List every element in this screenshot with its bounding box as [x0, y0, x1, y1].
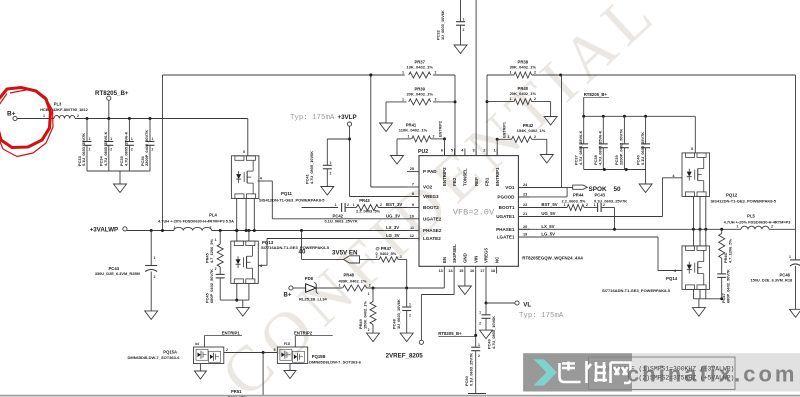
- svg-text:SIS412DN-T1-GE3_POWERPAK8-5: SIS412DN-T1-GE3_POWERPAK8-5: [259, 198, 325, 203]
- svg-text:4.7U_0805_25V6-K: 4.7U_0805_25V6-K: [598, 130, 603, 165]
- svg-text:2VREF_8205: 2VREF_8205: [386, 353, 424, 360]
- svg-text:P PAD: P PAD: [423, 169, 437, 174]
- svg-text:2: 2: [380, 203, 382, 207]
- svg-text:ENTRIP1: ENTRIP1: [495, 167, 500, 186]
- svg-text:110K_0402_1%: 110K_0402_1%: [399, 128, 428, 133]
- svg-text:9: 9: [412, 203, 414, 207]
- svg-text:UG_5V: UG_5V: [541, 211, 555, 216]
- svg-text:2: 2: [89, 148, 91, 152]
- svg-text:1U_0603_10V6K: 1U_0603_10V6K: [440, 10, 445, 40]
- svg-text:PC43: PC43: [595, 193, 606, 198]
- svg-text:PD8: PD8: [305, 276, 314, 281]
- svg-text:5: 5: [451, 149, 453, 153]
- svg-text:2: 2: [77, 114, 79, 118]
- svg-text:2200P_0402_50V7K: 2200P_0402_50V7K: [144, 130, 149, 166]
- svg-text:1: 1: [402, 71, 404, 75]
- svg-text:150U_D2E_6.3VM_R18: 150U_D2E_6.3VM_R18: [750, 277, 793, 282]
- svg-text:2: 2: [152, 148, 154, 152]
- svg-text:1: 1: [400, 255, 402, 259]
- svg-text:0.1U_0603_25V7K: 0.1U_0603_25V7K: [324, 219, 357, 224]
- svg-text:NC: NC: [494, 256, 499, 263]
- svg-text:PQ11: PQ11: [281, 191, 293, 196]
- svg-text:0_0402_5%: 0_0402_5%: [376, 251, 397, 256]
- svg-text:GND: GND: [463, 253, 468, 263]
- svg-text:1: 1: [789, 255, 791, 259]
- svg-text:VFB=2.0V: VFB=2.0V: [453, 208, 495, 218]
- svg-text:SI7716ADN-T1-GE3_POWERPAK8-5: SI7716ADN-T1-GE3_POWERPAK8-5: [602, 288, 671, 293]
- svg-text:2: 2: [215, 267, 217, 271]
- svg-text:PQ12: PQ12: [726, 193, 738, 198]
- svg-text:150K_0402_1%: 150K_0402_1%: [363, 301, 368, 329]
- svg-text:2: 2: [586, 203, 588, 207]
- svg-text:ENTRIP2: ENTRIP2: [442, 167, 447, 186]
- svg-text:LGATE1: LGATE1: [497, 235, 515, 240]
- svg-text:SI7716ADN-T1-GE3_POWERPAK8-5: SI7716ADN-T1-GE3_POWERPAK8-5: [261, 245, 330, 250]
- svg-text:VL: VL: [523, 301, 531, 308]
- svg-text:5: 5: [243, 150, 245, 154]
- svg-text:2: 2: [131, 148, 133, 152]
- svg-text:LG_5V: LG_5V: [541, 232, 555, 237]
- svg-text:EN: EN: [442, 257, 447, 263]
- svg-text:+3VLP: +3VLP: [338, 114, 357, 121]
- svg-text:chinafix.com: chinafix.com: [627, 362, 797, 387]
- svg-text:0.1U_0603_25V7K: 0.1U_0603_25V7K: [640, 132, 645, 165]
- svg-text:RLZ5.1B_LL34: RLZ5.1B_LL34: [299, 297, 328, 302]
- svg-text:FB1: FB1: [485, 177, 490, 186]
- svg-text:10: 10: [410, 214, 414, 218]
- svg-text:LGATE2: LGATE2: [423, 236, 441, 241]
- svg-text:499K_0402_1%: 499K_0402_1%: [339, 278, 367, 283]
- svg-text:PQ15A: PQ15A: [163, 350, 177, 355]
- svg-text:1: 1: [330, 161, 332, 165]
- svg-text:PR48: PR48: [344, 272, 355, 277]
- svg-text:20K_0402_1%: 20K_0402_1%: [406, 92, 433, 97]
- svg-text:PQ15B: PQ15B: [312, 354, 326, 359]
- svg-text:PL4: PL4: [209, 213, 217, 218]
- svg-text:4.7U_0805_25V6-K: 4.7U_0805_25V6-K: [578, 130, 583, 165]
- svg-text:1: 1: [402, 97, 404, 101]
- svg-text:SIS412DN-T1-GE3_POWERPAK8-5: SIS412DN-T1-GE3_POWERPAK8-5: [711, 198, 777, 203]
- svg-text:1: 1: [737, 224, 739, 228]
- svg-text:FB2: FB2: [452, 177, 457, 186]
- svg-text:2: 2: [435, 97, 437, 101]
- svg-text:1: 1: [131, 137, 133, 141]
- svg-text:2: 2: [369, 284, 371, 288]
- svg-text:680P_0402_50V7K: 680P_0402_50V7K: [209, 269, 214, 303]
- svg-text:4.7UH +-20% FDSD0630-H-4R7M=P3: 4.7UH +-20% FDSD0630-H-4R7M=P3 5.5A: [158, 219, 234, 224]
- svg-text:PL3: PL3: [54, 102, 62, 107]
- svg-text:2: 2: [479, 322, 481, 326]
- svg-text:12: 12: [410, 234, 414, 238]
- svg-text:VREG5: VREG5: [484, 248, 489, 263]
- svg-text:1: 1: [478, 343, 480, 347]
- svg-text:2: 2: [463, 28, 465, 32]
- svg-text:2: 2: [478, 354, 480, 358]
- svg-text:0.1U_0603_25V7K: 0.1U_0603_25V7K: [81, 133, 86, 166]
- svg-text:1: 1: [463, 18, 465, 22]
- svg-text:8: 8: [412, 192, 414, 196]
- svg-text:VO1: VO1: [505, 185, 515, 190]
- svg-text:4.7U_0805_10V6K: 4.7U_0805_10V6K: [491, 316, 496, 349]
- svg-text:LX_5V: LX_5V: [541, 224, 554, 229]
- svg-text:17: 17: [480, 269, 484, 273]
- svg-text:LX_3V: LX_3V: [386, 225, 399, 230]
- svg-text:VIN: VIN: [473, 256, 478, 263]
- svg-text:Typ: 175mA: Typ: 175mA: [519, 312, 564, 320]
- svg-text:2: 2: [433, 134, 435, 138]
- svg-text:1: 1: [409, 303, 411, 307]
- svg-text:1: 1: [89, 137, 91, 141]
- svg-text:PR51: PR51: [231, 389, 242, 394]
- svg-text:23: 23: [523, 192, 527, 196]
- svg-text:BST_5V: BST_5V: [541, 202, 557, 207]
- svg-text:0.1U_0603_25V7K: 0.1U_0603_25V7K: [469, 353, 474, 386]
- svg-text:RT8205_B+: RT8205_B+: [95, 90, 129, 97]
- svg-text:21: 21: [523, 212, 527, 216]
- svg-text:1: 1: [594, 203, 596, 207]
- svg-text:DMN65D8LDW-7_SOT363-6: DMN65D8LDW-7_SOT363-6: [128, 355, 181, 360]
- svg-text:2: 2: [347, 203, 349, 207]
- svg-text:154K_0402_1%: 154K_0402_1%: [517, 128, 546, 133]
- svg-text:1: 1: [174, 226, 176, 230]
- svg-text:2: 2: [534, 97, 536, 101]
- svg-text:RT8205_B+: RT8205_B+: [584, 92, 608, 97]
- svg-text:2: 2: [409, 314, 411, 318]
- svg-text:50: 50: [614, 186, 622, 193]
- svg-text:2: 2: [226, 348, 228, 352]
- svg-text:2: 2: [368, 328, 370, 332]
- svg-text:11: 11: [410, 226, 414, 230]
- svg-text:RT8205_B+: RT8205_B+: [438, 331, 462, 336]
- svg-text:ENTRIP1: ENTRIP1: [503, 122, 507, 138]
- svg-text:b4: b4: [195, 342, 199, 346]
- svg-text:13K_0402_1%: 13K_0402_1%: [406, 65, 433, 70]
- svg-text:1: 1: [494, 149, 496, 153]
- svg-text:15: 15: [459, 269, 463, 273]
- svg-text:25: 25: [410, 167, 414, 171]
- svg-text:1: 1: [479, 311, 481, 315]
- svg-text:BOOT2: BOOT2: [423, 205, 439, 210]
- svg-text:330U_D2E_6.3VM_R25M: 330U_D2E_6.3VM_R25M: [95, 271, 140, 276]
- svg-text:VREG3: VREG3: [423, 194, 439, 199]
- svg-text:PR44: PR44: [573, 193, 584, 198]
- svg-text:2: 2: [435, 71, 437, 75]
- svg-text:ENTRIP2: ENTRIP2: [294, 330, 313, 335]
- svg-text:20: 20: [523, 225, 527, 229]
- svg-text:BST_3V: BST_3V: [386, 202, 402, 207]
- svg-text:1: 1: [564, 203, 566, 207]
- svg-text:F1D: F1D: [284, 342, 291, 346]
- svg-text:6: 6: [441, 149, 443, 153]
- svg-text:SKIPSEL: SKIPSEL: [452, 244, 457, 263]
- svg-text:PU2: PU2: [418, 149, 428, 155]
- svg-text:7: 7: [412, 183, 414, 187]
- svg-text:0.1U_0603_25V7K: 0.1U_0603_25V7K: [594, 198, 627, 203]
- svg-text:4.7UH +-20% FDSD0630-H-4RTM=P3: 4.7UH +-20% FDSD0630-H-4RTM=P3: [724, 220, 792, 225]
- svg-text:PHASE2: PHASE2: [423, 228, 442, 233]
- svg-text:B+: B+: [284, 293, 292, 299]
- svg-text:4.7_1206_5%: 4.7_1206_5%: [209, 238, 214, 263]
- svg-text:2: 2: [110, 148, 112, 152]
- svg-text:1: 1: [215, 238, 217, 242]
- svg-text:1: 1: [110, 137, 112, 141]
- svg-text:40: 40: [299, 249, 306, 256]
- svg-text:2: 2: [330, 172, 332, 176]
- svg-text:1: 1: [353, 203, 355, 207]
- svg-text:20K_0402_1%: 20K_0402_1%: [510, 91, 537, 96]
- svg-text:PGOOD: PGOOD: [497, 195, 515, 200]
- svg-text:22: 22: [523, 203, 527, 207]
- svg-text:1: 1: [154, 256, 156, 260]
- svg-text:1U_0603_10V6K: 1U_0603_10V6K: [396, 299, 401, 329]
- svg-text:UGATE2: UGATE2: [423, 216, 442, 221]
- svg-text:18: 18: [491, 269, 495, 273]
- svg-text:2: 2: [771, 224, 773, 228]
- svg-text:ENTRIP2: ENTRIP2: [439, 121, 443, 137]
- svg-text:LG_3V: LG_3V: [386, 233, 400, 238]
- svg-text:DMN65D8LDW-7_SOT363-6: DMN65D8LDW-7_SOT363-6: [309, 359, 362, 364]
- svg-text:1: 1: [335, 203, 337, 207]
- svg-text:1: 1: [408, 134, 410, 138]
- svg-text:PQ14: PQ14: [666, 276, 678, 281]
- svg-text:5: 5: [691, 147, 693, 151]
- svg-text:4.7U_0805_25V6-K: 4.7U_0805_25V6-K: [124, 131, 129, 166]
- svg-text:1: 1: [508, 135, 510, 139]
- svg-text:3: 3: [472, 149, 474, 153]
- svg-text:UGATE1: UGATE1: [496, 214, 515, 219]
- svg-text:1: 1: [339, 284, 341, 288]
- svg-text:2: 2: [603, 203, 605, 207]
- svg-text:2: 2: [483, 149, 485, 153]
- svg-text:REF: REF: [474, 177, 479, 186]
- svg-text:RT8205EGQW_WQFN24_4X4: RT8205EGQW_WQFN24_4X4: [522, 256, 583, 261]
- svg-text:2: 2: [154, 275, 156, 279]
- svg-text:30K_0402_1%: 30K_0402_1%: [510, 65, 537, 70]
- svg-text:680P_0402_50V7K: 680P_0402_50V7K: [725, 269, 730, 303]
- svg-text:2: 2: [534, 135, 536, 139]
- svg-text:1: 1: [43, 114, 45, 118]
- svg-text:PR43: PR43: [359, 198, 370, 203]
- svg-text:4.7_1206_5%: 4.7_1206_5%: [727, 238, 732, 263]
- svg-text:+3VALWP: +3VALWP: [90, 227, 119, 234]
- svg-text:5: 5: [274, 348, 276, 352]
- svg-text:2: 2: [534, 71, 536, 75]
- svg-text:ENTRIP1: ENTRIP1: [222, 330, 241, 335]
- svg-text:3V5V EN: 3V5V EN: [332, 250, 358, 257]
- svg-text:BOOT1: BOOT1: [499, 205, 515, 210]
- svg-text:1: 1: [510, 97, 512, 101]
- svg-text:1: 1: [152, 137, 154, 141]
- svg-text:16: 16: [470, 269, 474, 273]
- svg-text:13: 13: [439, 269, 443, 273]
- svg-text:B+: B+: [7, 111, 16, 118]
- svg-text:2.2_0603_5%: 2.2_0603_5%: [356, 209, 381, 214]
- svg-text:4.7U_0805_10V6K: 4.7U_0805_10V6K: [309, 151, 314, 184]
- svg-text:4.7U_0805_25V6-K: 4.7U_0805_25V6-K: [103, 131, 108, 166]
- svg-text:VO2: VO2: [423, 185, 433, 190]
- svg-text:19: 19: [523, 233, 527, 237]
- svg-text:PL5: PL5: [747, 214, 755, 219]
- svg-text:PHASE1: PHASE1: [496, 227, 515, 232]
- svg-text:UG_3V: UG_3V: [386, 213, 400, 218]
- svg-text:1: 1: [368, 292, 370, 296]
- svg-text:2: 2: [210, 226, 212, 230]
- svg-text:2200P_0402_50V7K: 2200P_0402_50V7K: [619, 129, 624, 165]
- svg-text:TONSEL: TONSEL: [463, 168, 468, 186]
- svg-text:Typ: 175mA: Typ: 175mA: [290, 114, 335, 122]
- svg-text:1: 1: [510, 71, 512, 75]
